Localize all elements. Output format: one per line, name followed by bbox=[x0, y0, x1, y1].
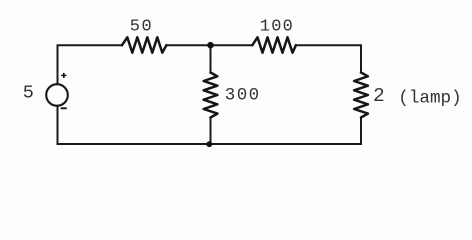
wire middle-top (node A to R300) bbox=[210, 45, 212, 72]
wire node A to R100 bbox=[211, 44, 253, 46]
voltage source plus sign bbox=[61, 73, 66, 78]
wire top-left (source to R50) bbox=[58, 45, 123, 84]
svg-text:2: 2 bbox=[373, 85, 385, 107]
voltage source V1 circle bbox=[46, 84, 68, 106]
wire left-bottom (source to bottom rail) bbox=[57, 106, 59, 144]
svg-text:100: 100 bbox=[260, 18, 294, 37]
svg-text:5: 5 bbox=[23, 82, 34, 103]
wire top-middle (R50 to node A) bbox=[166, 44, 210, 46]
wire middle-bottom (R300 to node B) bbox=[210, 118, 212, 145]
wire right-bottom (lamp to bottom rail) bbox=[360, 118, 362, 145]
voltage source minus sign bbox=[61, 107, 67, 109]
wire top-right (R100 to right corner) bbox=[296, 45, 361, 72]
svg-text:(lamp): (lamp) bbox=[398, 88, 461, 108]
resistor 300 bbox=[204, 73, 218, 118]
svg-text:300: 300 bbox=[225, 86, 261, 106]
svg-text:50: 50 bbox=[130, 17, 153, 36]
resistor 50 bbox=[122, 37, 166, 52]
node B junction dot bbox=[206, 141, 212, 147]
resistor 100 bbox=[252, 37, 296, 52]
node A junction dot bbox=[207, 42, 214, 49]
wire bottom rail bbox=[58, 143, 362, 145]
resistor 2 (lamp) bbox=[354, 73, 368, 118]
